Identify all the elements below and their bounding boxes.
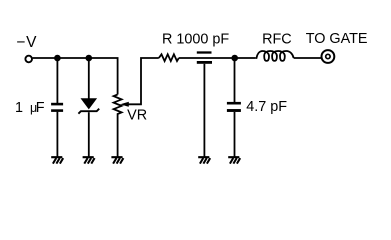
svg-text:RFC: RFC [262,32,292,48]
svg-text:R 1000 pF: R 1000 pF [162,31,229,47]
svg-text:VR: VR [127,107,147,123]
svg-text:1: 1 [15,100,23,116]
svg-text:F: F [36,100,45,116]
svg-text:TO GATE: TO GATE [306,31,368,47]
svg-text:4.7 pF: 4.7 pF [246,99,287,115]
svg-text:−V: −V [16,34,37,51]
